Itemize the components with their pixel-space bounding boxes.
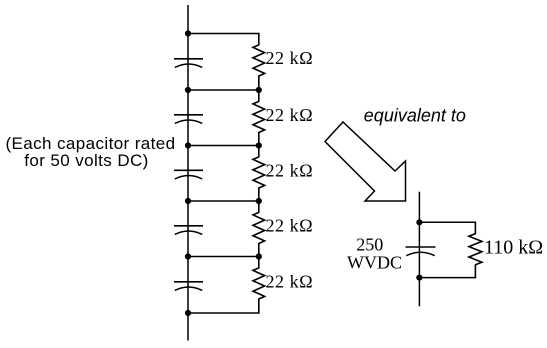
wire: node row 5 horizontal (188, 256, 260, 258)
wire: right vertical bus (418, 192, 420, 307)
label: equivalent to (364, 105, 466, 125)
node E junction dots (185, 253, 262, 259)
resistor R5 (253, 257, 265, 314)
node A junction dot (185, 30, 191, 36)
label R1 value 22 kOhm (266, 48, 314, 68)
node F junction dot (185, 310, 191, 316)
svg-text:equivalent to: equivalent to (364, 105, 466, 125)
label R6 value 110 kOhm (484, 236, 543, 258)
capacitor C1 (174, 59, 203, 68)
capacitor C4 (174, 226, 203, 235)
capacitor C5 (174, 282, 203, 291)
arrow: equivalence block arrow (325, 122, 406, 201)
capacitor C2 (174, 115, 203, 124)
svg-text:250: 250 (356, 235, 383, 255)
resistor R2 (253, 90, 265, 146)
wire: node row 1 horizontal (188, 33, 260, 35)
resistor R4 (253, 201, 265, 257)
wire: node row 6 horizontal (188, 312, 260, 314)
note: capacitor rating text (6, 134, 176, 170)
resistor R1 (253, 34, 265, 91)
wire: node row 4 horizontal (188, 200, 260, 202)
label R5 value 22 kOhm (266, 271, 314, 291)
svg-text:110 kΩ: 110 kΩ (484, 236, 543, 258)
wire: right top node horizontal (419, 221, 476, 223)
resistor R3 (253, 146, 265, 202)
resistor R6 equivalent (469, 222, 482, 277)
svg-text:22 kΩ: 22 kΩ (266, 216, 314, 236)
svg-text:22 kΩ: 22 kΩ (266, 48, 314, 68)
svg-text:22 kΩ: 22 kΩ (266, 271, 314, 291)
node C junction dots (185, 142, 262, 148)
svg-text:22 kΩ: 22 kΩ (266, 105, 314, 125)
svg-text:22 kΩ: 22 kΩ (266, 160, 314, 180)
label R4 value 22 kOhm (266, 216, 314, 236)
label: 250 WVDC rating (347, 235, 402, 273)
wire: node row 3 horizontal (188, 145, 260, 147)
node D junction dots (185, 198, 262, 204)
wire: right bottom node horizontal (419, 277, 476, 279)
node B junction dots (185, 87, 262, 93)
capacitor C6 equivalent 250 WVDC (406, 247, 436, 256)
svg-text:WVDC: WVDC (347, 253, 402, 273)
node G junction dot (right top) (416, 219, 422, 225)
label R3 value 22 kOhm (266, 160, 314, 180)
wire: node row 2 horizontal (188, 89, 260, 91)
node H junction dot (right bottom) (416, 275, 422, 281)
wire: left main vertical bus (187, 5, 189, 341)
capacitor C3 (174, 170, 203, 179)
label R2 value 22 kOhm (266, 105, 314, 125)
svg-text:for 50 volts DC): for 50 volts DC) (24, 151, 149, 170)
